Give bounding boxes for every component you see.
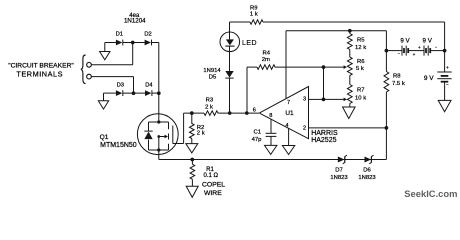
svg-text:9 V: 9 V: [423, 37, 433, 44]
svg-text:SeekIC.com: SeekIC.com: [404, 188, 457, 199]
svg-text:1N1204: 1N1204: [124, 18, 146, 25]
svg-text:10 k: 10 k: [355, 95, 366, 101]
svg-text:D4: D4: [145, 83, 153, 89]
svg-text:D6: D6: [363, 167, 371, 173]
svg-text:HARRIS: HARRIS: [311, 130, 338, 137]
svg-text:0.1 Ω: 0.1 Ω: [204, 173, 219, 179]
svg-text:8: 8: [269, 113, 272, 119]
svg-text:COPEL: COPEL: [202, 182, 225, 189]
svg-text:R8: R8: [393, 74, 401, 80]
svg-text:TERMINALS: TERMINALS: [16, 70, 63, 79]
svg-text:2 k: 2 k: [197, 131, 205, 137]
svg-text:7.5 k: 7.5 k: [392, 81, 405, 87]
svg-text:R6: R6: [357, 59, 365, 65]
svg-text:R4: R4: [263, 51, 271, 57]
svg-text:9 V: 9 V: [400, 37, 410, 44]
svg-text:2: 2: [303, 126, 306, 132]
svg-text:D3: D3: [117, 83, 124, 89]
svg-text:"CIRCUIT BREAKER": "CIRCUIT BREAKER": [8, 63, 74, 70]
svg-text:R1: R1: [206, 167, 214, 173]
svg-text:+: +: [446, 66, 449, 71]
svg-text:1N823: 1N823: [358, 175, 376, 181]
svg-text:12 k: 12 k: [355, 45, 366, 51]
svg-text:LED: LED: [242, 38, 257, 47]
svg-text:Q1: Q1: [100, 134, 109, 141]
svg-text:U1: U1: [285, 110, 294, 117]
svg-text:+: +: [418, 45, 421, 50]
svg-text:1 k: 1 k: [250, 11, 258, 17]
svg-text:D2: D2: [144, 32, 151, 38]
svg-text:6: 6: [253, 108, 256, 114]
svg-text:D5: D5: [209, 75, 217, 81]
svg-text:2m: 2m: [262, 57, 270, 63]
svg-text:R7: R7: [357, 88, 365, 94]
svg-text:R3: R3: [206, 97, 214, 103]
svg-text:4: 4: [285, 123, 288, 129]
svg-text:9 V: 9 V: [424, 75, 434, 82]
svg-text:D7: D7: [335, 167, 343, 173]
svg-text:+: +: [413, 52, 416, 57]
svg-text:3: 3: [303, 96, 306, 102]
svg-text:D1: D1: [116, 32, 123, 38]
svg-text:1N914: 1N914: [203, 68, 221, 74]
svg-text:1N823: 1N823: [330, 175, 348, 181]
svg-text:5 k: 5 k: [356, 66, 364, 72]
svg-text:WIRE: WIRE: [204, 190, 222, 197]
svg-text:47p: 47p: [252, 137, 263, 143]
svg-text:C1: C1: [254, 130, 262, 136]
svg-text:R5: R5: [357, 38, 365, 44]
svg-text:MTM15N50: MTM15N50: [100, 142, 137, 149]
svg-text:7: 7: [287, 100, 290, 106]
svg-text:2 k: 2 k: [205, 104, 213, 110]
svg-text:HA2525: HA2525: [311, 137, 336, 144]
